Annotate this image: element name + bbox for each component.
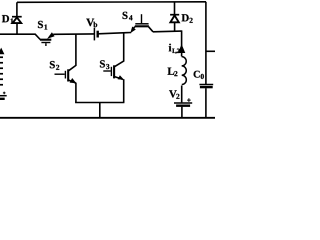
wire L2 branch upper (181, 30, 183, 56)
wire D2 bottom to mid rail (174, 22, 176, 31)
wire D1 bottom to mid rail (16, 23, 18, 34)
label iL2 (169, 44, 180, 54)
wire S3 collector riser (115, 33, 124, 67)
wire D2 top drop (174, 2, 176, 14)
label Vb (86, 19, 97, 27)
wire V2 bottom (181, 107, 183, 118)
transistor S3 (103, 65, 124, 80)
diode D2 (170, 15, 179, 23)
wire mid rail Vb to S4 (98, 33, 131, 34)
wire D1 top drop (16, 2, 18, 16)
wire S3 emitter faller (123, 79, 125, 102)
wire S2 emitter faller (75, 83, 77, 103)
diode D1 (12, 17, 22, 23)
label S3 (100, 60, 109, 69)
transistor S1 (35, 32, 54, 46)
wire C0 stub to right edge (206, 50, 215, 52)
inductor coil remnant dashes at left edge (0, 56, 3, 85)
label D2 (182, 14, 193, 23)
wire mid rail S1 to Vb (53, 33, 94, 35)
wire mid rail S4 to L2 branch corner (153, 30, 182, 33)
transistor S2 (55, 69, 77, 83)
wire L2 to V2 (181, 86, 183, 103)
current arrow remnant at left edge (0, 48, 4, 55)
current arrow iL2 (178, 44, 185, 53)
transistor S4 (130, 14, 153, 33)
capacitor C0 (199, 85, 213, 88)
wire top rail (17, 1, 206, 4)
wire C0 drop from top rail (205, 2, 207, 84)
wire S2 collector riser (69, 34, 76, 71)
wire C0 bottom (205, 88, 207, 118)
wire center drop to bottom rail (99, 103, 101, 118)
wire mid rail left segment (0, 33, 36, 35)
battery V2 (174, 98, 192, 105)
label S4 (123, 12, 133, 20)
battery Vb (94, 28, 97, 41)
label S1 (38, 21, 47, 30)
battery remnant at left edge (0, 92, 7, 99)
label D1 (2, 15, 13, 23)
inductor L2 (182, 57, 187, 85)
wire bottom bus S2-S3 (75, 102, 124, 104)
wire bottom rail (0, 117, 215, 119)
label S2 (50, 61, 59, 70)
label C0 (194, 71, 204, 79)
circuit schematic: interleaved buck-boost converter cell (cropped) (0, 0, 215, 120)
label V2 (169, 90, 179, 98)
label L2 (168, 68, 178, 76)
